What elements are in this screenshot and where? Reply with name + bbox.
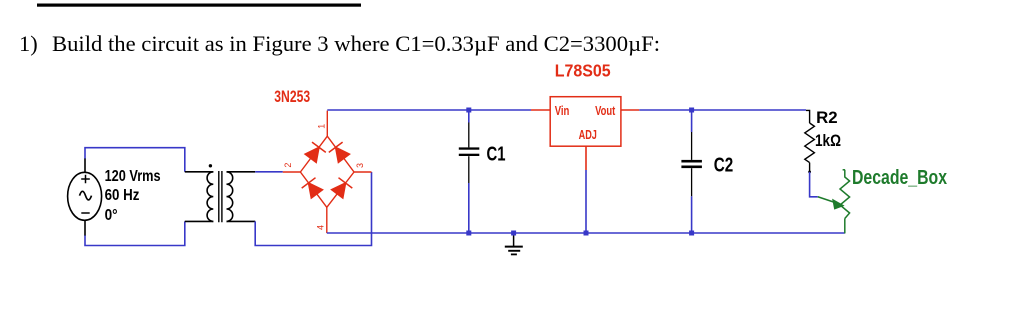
secondary top lead	[227, 171, 256, 173]
svg-text:C1: C1	[487, 143, 506, 165]
primary coil	[207, 172, 213, 222]
wire Vin pin stub	[531, 109, 550, 111]
junction C2 top	[689, 108, 694, 113]
wiper arrow	[818, 197, 844, 209]
junction ground	[511, 231, 516, 236]
R2 pin dot	[808, 171, 811, 174]
svg-text:1)Build the circuit as in Figu: 1)Build the circuit as in Figure 3 where…	[19, 31, 660, 56]
C1 plates	[459, 147, 480, 149]
svg-text:1: 1	[316, 124, 326, 129]
wire R2 to wiper	[810, 172, 818, 197]
svg-text:C2: C2	[714, 155, 734, 177]
wire C2 top	[691, 110, 693, 132]
wire ground rail	[327, 232, 845, 234]
svg-text:1kΩ: 1kΩ	[815, 131, 841, 150]
wire ADJ pin	[585, 146, 587, 170]
R2 zigzag	[805, 123, 815, 163]
label 120 Vrms 60 Hz 0deg	[105, 168, 161, 224]
top rule bar	[37, 4, 361, 7]
polarity dot	[209, 164, 212, 167]
svg-text:0°: 0°	[105, 207, 118, 224]
secondary coil	[227, 172, 233, 222]
svg-text:3: 3	[355, 163, 365, 168]
pin 2 stub	[283, 171, 301, 173]
svg-text:L78S05: L78S05	[555, 60, 611, 80]
svg-text:120 Vrms: 120 Vrms	[105, 168, 161, 185]
junction C1 bottom	[466, 231, 471, 236]
pot bottom lead	[844, 219, 846, 234]
wire Vout to C2/R2	[639, 109, 806, 111]
pin 3 stub	[354, 171, 372, 173]
junction C2 bottom	[689, 231, 694, 236]
wire top rail node1 to Vin	[327, 109, 531, 111]
C1 component leads	[468, 123, 470, 184]
junction C1 top	[466, 108, 471, 113]
core lines	[219, 171, 222, 222]
pot zigzag body	[840, 170, 850, 234]
wire C2 bottom	[691, 196, 693, 233]
U1 box outline	[550, 97, 621, 147]
svg-text:4: 4	[316, 225, 326, 230]
C2 plates	[681, 160, 702, 163]
pin 4 stub	[326, 207, 328, 233]
svg-text:3N253: 3N253	[274, 88, 310, 106]
diode D3 bottom-left	[302, 178, 323, 198]
svg-text:Decade_Box: Decade_Box	[852, 167, 947, 189]
diode D1 top-left	[305, 142, 326, 162]
svg-text:2: 2	[283, 163, 293, 168]
diode D2 top-right	[329, 142, 350, 162]
secondary bottom lead	[227, 220, 256, 222]
svg-text:60 Hz: 60 Hz	[105, 187, 140, 204]
R2 top lead	[806, 110, 810, 123]
primary bottom lead	[185, 220, 214, 222]
R2 bottom lead	[809, 163, 811, 172]
svg-text:ADJ: ADJ	[579, 128, 597, 142]
wire ADJ to ground rail	[585, 170, 587, 233]
ac source V1	[68, 159, 102, 236]
wire C1 top	[468, 110, 470, 123]
wire source bottom loop	[85, 221, 185, 245]
svg-text:Vout: Vout	[595, 104, 616, 118]
bridge diamond edges	[300, 136, 354, 207]
pin 1 stub	[326, 111, 328, 137]
svg-text:Vin: Vin	[555, 104, 570, 118]
wire secondary top to node 2	[255, 171, 283, 173]
primary top lead	[185, 171, 214, 173]
diode D4 bottom-right	[332, 178, 353, 198]
C2 component leads	[691, 132, 693, 196]
junction ADJ bottom	[584, 231, 589, 236]
wire secondary bottom to node 3	[255, 172, 371, 246]
pot top tick	[843, 169, 845, 171]
wire source top loop	[85, 148, 185, 172]
wire Vout pin stub	[621, 109, 639, 111]
svg-text:R2: R2	[816, 109, 838, 127]
wire C1 bottom	[468, 183, 470, 233]
